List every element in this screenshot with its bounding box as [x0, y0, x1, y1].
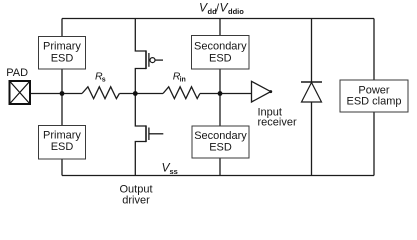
svg-text:ddio: ddio	[228, 7, 244, 16]
svg-text:receiver: receiver	[258, 117, 297, 129]
svg-text:ESD clamp: ESD clamp	[346, 96, 401, 108]
svg-text:ss: ss	[170, 167, 178, 176]
svg-text:Secondary: Secondary	[194, 41, 247, 53]
svg-text:ESD: ESD	[209, 141, 232, 153]
svg-text:Secondary: Secondary	[194, 130, 247, 142]
svg-text:driver: driver	[122, 195, 150, 207]
svg-text:in: in	[180, 77, 186, 84]
svg-text:Output: Output	[119, 183, 152, 195]
svg-text:Power: Power	[358, 84, 390, 96]
svg-text:s: s	[102, 77, 106, 84]
svg-text:ESD: ESD	[51, 141, 74, 153]
svg-text:ESD: ESD	[209, 52, 232, 64]
svg-text:Primary: Primary	[43, 41, 81, 53]
svg-text:PAD: PAD	[6, 67, 28, 79]
svg-text:Primary: Primary	[43, 130, 81, 142]
svg-text:ESD: ESD	[51, 52, 74, 64]
